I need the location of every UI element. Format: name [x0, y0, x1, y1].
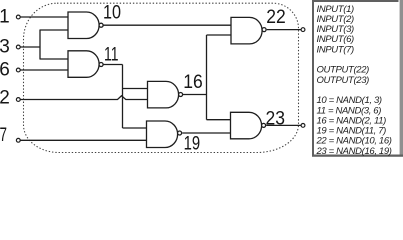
svg-text:7: 7: [0, 125, 7, 146]
wire node16 vertical: [206, 35, 208, 120]
wire node16 to gate23 in1: [207, 119, 231, 121]
wire input1 to gate10 in1: [21, 16, 69, 18]
wire input6 to gate11 in2: [21, 69, 69, 71]
output pin 22: [301, 28, 305, 32]
wire output22: [267, 29, 302, 31]
svg-text:3: 3: [0, 37, 10, 58]
nand gate 16 body: [148, 81, 179, 108]
window edge bottom: [312, 155, 403, 158]
wire input2 to gate16 in2 with hop: [21, 96, 148, 100]
nand gate 10 bubble: [99, 23, 103, 27]
panel border top: [312, 0, 399, 2]
nand gate 11 bubble: [99, 63, 103, 67]
svg-text:16: 16: [183, 72, 203, 93]
window edge right: [400, 0, 403, 157]
nand gate 22 body: [231, 17, 262, 44]
wire output23: [266, 124, 301, 126]
panel border bottom: [312, 155, 403, 157]
panel border left: [312, 0, 314, 156]
wire input3 horizontal: [21, 46, 41, 48]
wire node16 to gate22 in2: [207, 34, 232, 36]
nand gate 22 bubble: [262, 28, 266, 32]
input pin 7: [16, 138, 20, 142]
wire node3 to gate11 in1: [40, 58, 68, 60]
svg-text:2: 2: [0, 87, 10, 108]
wire node3 to gate10 in2: [40, 29, 68, 31]
wire input7 to gate19 in2: [21, 139, 147, 141]
gates: [68, 12, 266, 148]
svg-text:OUTPUT(23): OUTPUT(23): [317, 75, 370, 86]
nand gate 19 bubble: [178, 131, 182, 135]
svg-text:10: 10: [103, 3, 121, 24]
wire node10 gate10 out to gate22 in1: [103, 24, 231, 26]
wire node11 to gate16 in1: [123, 88, 148, 90]
nand gate 19 body: [147, 121, 178, 148]
input pin 2: [16, 98, 20, 102]
wire node11 to gate19 in1: [123, 127, 147, 129]
wire node19 to gate23 in2: [182, 132, 230, 134]
nand gate 10 body: [68, 12, 99, 39]
wire node11 out horizontal: [103, 64, 123, 66]
dashed module boundary: [24, 3, 299, 152]
terminals: [16, 15, 305, 142]
input pin 3: [16, 45, 20, 49]
nand gate 23 body: [231, 112, 262, 139]
svg-text:1: 1: [0, 7, 10, 28]
output pin 23: [301, 124, 305, 128]
svg-text:23 = NAND(16, 19): 23 = NAND(16, 19): [316, 146, 392, 157]
input pin 1: [16, 15, 20, 19]
input pin 6: [16, 68, 20, 72]
nand gate 16 bubble: [179, 93, 183, 97]
wire node3 vertical: [39, 30, 41, 60]
svg-text:23: 23: [266, 109, 286, 130]
netlist panel: [312, 0, 403, 157]
wire node11 vertical: [122, 65, 124, 129]
svg-text:11: 11: [104, 45, 119, 66]
svg-text:19: 19: [184, 133, 201, 154]
nand gate 11 body: [68, 51, 99, 78]
svg-text:22: 22: [266, 7, 286, 28]
svg-text:INPUT(7): INPUT(7): [317, 44, 354, 55]
nand gate 23 bubble: [262, 123, 266, 127]
wire node16 out horizontal: [183, 94, 207, 96]
svg-text:6: 6: [0, 60, 10, 81]
